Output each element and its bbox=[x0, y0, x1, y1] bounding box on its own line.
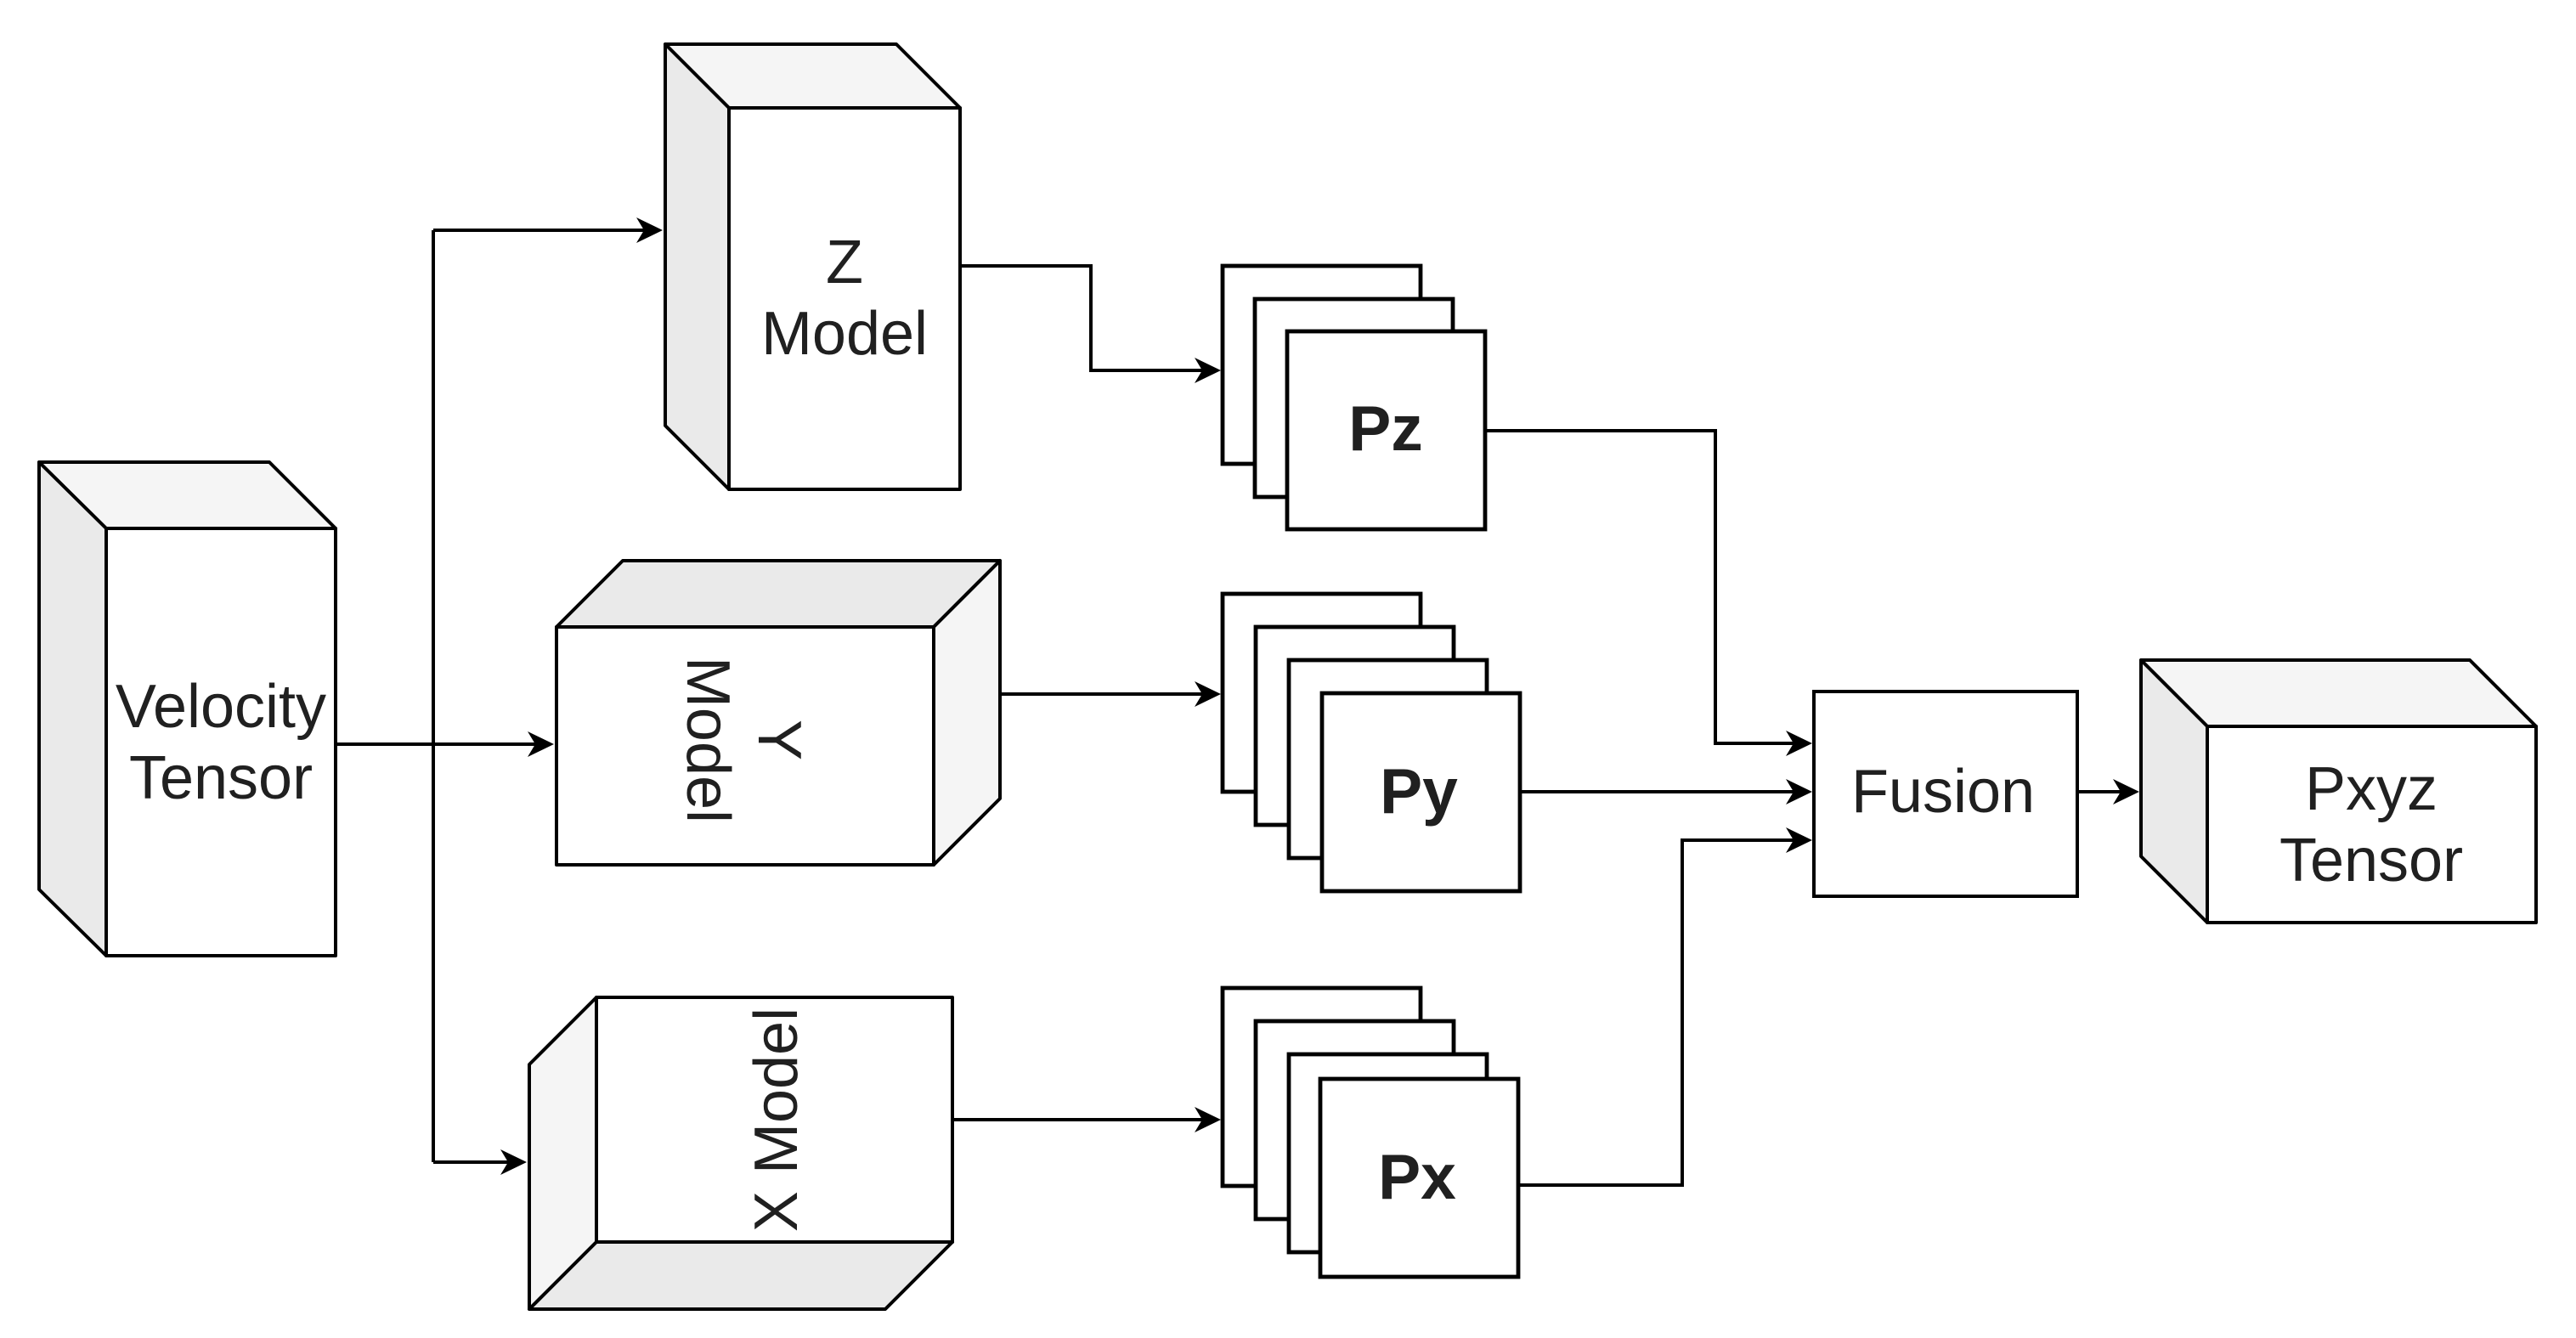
svg-text:Model: Model bbox=[674, 657, 742, 823]
wire: Px stack to Fusion bbox=[1519, 840, 1794, 1185]
stack: Pz layers bbox=[1223, 266, 1485, 529]
wire: Velocity Tensor to Y Model (with branch trunk) bbox=[336, 742, 535, 746]
wire: Z Model to Pz stack bbox=[960, 266, 1202, 370]
wire: Pz stack to Fusion bbox=[1485, 431, 1794, 743]
svg-text:Tensor: Tensor bbox=[129, 744, 313, 812]
arrowhead into Fusion (top) bbox=[1786, 731, 1812, 756]
svg-text:Fusion: Fusion bbox=[1851, 758, 2035, 826]
wire: Fusion to Pxyz Tensor bbox=[2077, 790, 2121, 793]
cube: Y Model bbox=[556, 561, 1000, 865]
arrowhead into Pxyz Tensor bbox=[2113, 779, 2139, 804]
arrowhead into Fusion (middle) bbox=[1786, 779, 1812, 804]
wire: X Model to Px stack bbox=[952, 1118, 1202, 1121]
arrowhead into Y Model bbox=[528, 731, 554, 757]
stack: Px layers bbox=[1223, 988, 1518, 1277]
wire: Y Model to Py stack bbox=[1000, 692, 1202, 696]
svg-text:Tensor: Tensor bbox=[2279, 827, 2463, 895]
svg-text:Z: Z bbox=[826, 229, 863, 296]
label: Y Model (rotated 90) bbox=[674, 657, 813, 823]
cube: Z Model bbox=[665, 44, 960, 489]
cube: Pxyz Tensor bbox=[2141, 660, 2536, 923]
svg-text:X Model: X Model bbox=[743, 1008, 811, 1232]
cube: Velocity Tensor bbox=[39, 462, 336, 956]
wire: branch up to Z Model bbox=[433, 229, 644, 232]
svg-text:Model: Model bbox=[761, 300, 928, 368]
wire: Py stack to Fusion bbox=[1520, 790, 1794, 793]
svg-text:Py: Py bbox=[1380, 755, 1458, 827]
box: Fusion bbox=[1814, 692, 2077, 896]
arrowhead into Z Model bbox=[636, 217, 663, 243]
arrowhead into Px stack bbox=[1195, 1107, 1221, 1132]
cube: X Model bbox=[529, 997, 952, 1309]
arrowhead into Py stack bbox=[1195, 681, 1221, 707]
wire: branch vertical trunk bbox=[432, 230, 435, 1162]
svg-text:Velocity: Velocity bbox=[116, 673, 326, 741]
svg-text:Px: Px bbox=[1378, 1141, 1456, 1212]
svg-text:Pz: Pz bbox=[1348, 392, 1423, 464]
svg-text:Y: Y bbox=[745, 720, 813, 760]
wire: branch down to X Model bbox=[433, 1160, 508, 1164]
svg-text:Pxyz: Pxyz bbox=[2305, 755, 2438, 823]
arrowhead into Pz stack bbox=[1195, 358, 1221, 383]
arrowhead into X Model bbox=[500, 1149, 527, 1175]
label: X Model (rotated -90) bbox=[743, 1008, 811, 1232]
arrowhead into Fusion (bottom) bbox=[1786, 827, 1812, 853]
stack: Py layers bbox=[1223, 594, 1520, 891]
